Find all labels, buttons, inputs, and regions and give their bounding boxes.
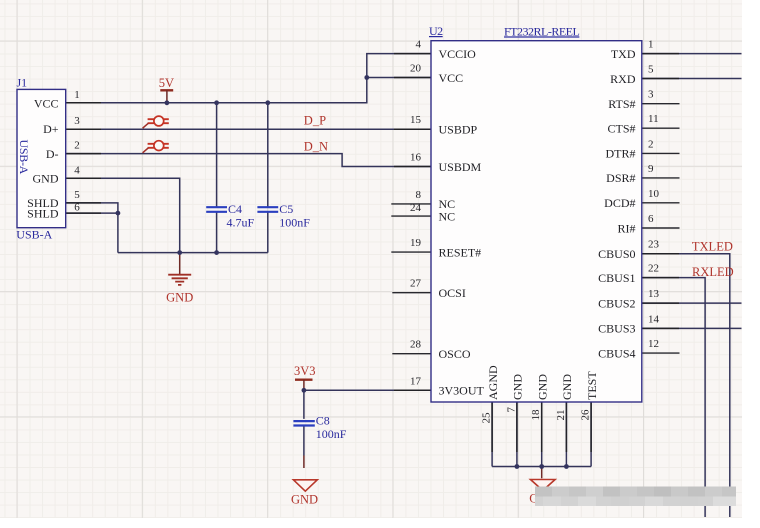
junction node rail GND bbox=[177, 250, 182, 255]
svg-text:28: 28 bbox=[410, 339, 422, 351]
ferrite bead / diff-pair directive on D+ bbox=[143, 116, 169, 128]
svg-text:AGND: AGND bbox=[486, 365, 500, 400]
svg-text:D_P: D_P bbox=[304, 114, 326, 128]
svg-text:TXD: TXD bbox=[611, 47, 636, 61]
pin stubs J1 black segments bbox=[66, 103, 101, 213]
svg-text:CBUS0: CBUS0 bbox=[598, 247, 635, 261]
svg-text:1: 1 bbox=[74, 89, 80, 101]
svg-text:24: 24 bbox=[410, 202, 422, 214]
junction node GND21 bbox=[564, 464, 569, 469]
svg-text:13: 13 bbox=[648, 288, 660, 300]
svg-text:25: 25 bbox=[481, 412, 493, 424]
svg-text:27: 27 bbox=[410, 278, 422, 290]
svg-text:22: 22 bbox=[648, 263, 659, 275]
svg-text:GND: GND bbox=[291, 492, 318, 506]
svg-text:OCSI: OCSI bbox=[439, 286, 466, 300]
ground triangle symbol under C8 bbox=[303, 456, 305, 469]
pin stub RI# bbox=[642, 227, 680, 229]
svg-text:D+: D+ bbox=[43, 122, 59, 136]
pin stub DTR# bbox=[642, 152, 680, 154]
wire C4 branch bbox=[216, 103, 218, 253]
svg-text:CBUS4: CBUS4 bbox=[598, 346, 635, 360]
wire CBUS1 RXLED bbox=[642, 278, 705, 517]
svg-text:16: 16 bbox=[410, 152, 422, 164]
svg-text:VCC: VCC bbox=[439, 71, 464, 85]
junction node C4 top bbox=[214, 100, 219, 105]
svg-text:VCC: VCC bbox=[34, 96, 59, 110]
ferrite bead / diff-pair directive on D- bbox=[143, 141, 169, 153]
pin stub RTS# bbox=[642, 103, 680, 105]
capacitor C4 plates bbox=[206, 207, 227, 212]
junction node SHLD bbox=[116, 211, 121, 216]
svg-text:NC: NC bbox=[439, 209, 456, 223]
power port 5V bbox=[160, 89, 173, 91]
svg-text:SHLD: SHLD bbox=[27, 207, 59, 221]
svg-text:DSR#: DSR# bbox=[606, 171, 635, 185]
svg-text:RESET#: RESET# bbox=[439, 245, 482, 259]
svg-text:J1: J1 bbox=[17, 76, 28, 90]
svg-text:CTS#: CTS# bbox=[607, 122, 635, 136]
svg-text:DCD#: DCD# bbox=[604, 196, 635, 210]
svg-text:9: 9 bbox=[648, 163, 654, 175]
svg-text:21: 21 bbox=[555, 410, 567, 421]
pin stub DSR# bbox=[642, 177, 680, 179]
wire SHLD pin5 down bbox=[66, 203, 118, 253]
pin stub CTS# bbox=[642, 127, 680, 129]
junction node GND18 bbox=[539, 464, 544, 469]
svg-text:FT232RL-REEL: FT232RL-REEL bbox=[504, 24, 579, 38]
svg-text:10: 10 bbox=[648, 188, 660, 200]
svg-text:19: 19 bbox=[410, 237, 422, 249]
svg-text:DTR#: DTR# bbox=[606, 147, 636, 161]
svg-text:TXLED: TXLED bbox=[692, 240, 733, 254]
wire USB GND pin4 down to ground rail bbox=[66, 178, 180, 252]
wire bottom TEST pin26 bbox=[590, 402, 592, 467]
svg-text:3V3OUT: 3V3OUT bbox=[439, 384, 485, 398]
svg-text:GND: GND bbox=[511, 374, 525, 400]
wire CBUS0 TXLED bbox=[642, 254, 730, 517]
svg-text:CBUS3: CBUS3 bbox=[598, 322, 635, 336]
svg-text:GND: GND bbox=[560, 374, 574, 400]
power port 3V3 bbox=[295, 379, 313, 381]
svg-text:CBUS1: CBUS1 bbox=[598, 271, 635, 285]
capacitor C8 plates bbox=[293, 421, 314, 425]
wire TXD out bbox=[642, 53, 742, 55]
wire RXD out bbox=[642, 78, 742, 80]
svg-text:11: 11 bbox=[648, 113, 659, 125]
svg-text:5V: 5V bbox=[159, 76, 174, 90]
svg-text:8: 8 bbox=[416, 189, 422, 201]
svg-text:15: 15 bbox=[410, 114, 422, 126]
svg-text:U2: U2 bbox=[429, 24, 443, 38]
svg-text:4: 4 bbox=[416, 39, 422, 51]
wire D_N net from USB D- to U2 USBDM bbox=[66, 154, 431, 167]
pin stub NC 24 bbox=[391, 215, 431, 217]
svg-text:6: 6 bbox=[74, 201, 80, 213]
svg-text:RXLED: RXLED bbox=[692, 265, 734, 279]
wire ground rail under USB bbox=[118, 252, 268, 254]
svg-text:6: 6 bbox=[648, 213, 654, 225]
svg-text:4.7uF: 4.7uF bbox=[227, 215, 255, 229]
white page margins right and bottom bbox=[742, 0, 760, 528]
svg-text:D_N: D_N bbox=[304, 139, 328, 153]
svg-text:5: 5 bbox=[648, 64, 654, 76]
capacitor C5 plates bbox=[257, 207, 278, 212]
junction node GND7 bbox=[515, 464, 520, 469]
svg-text:23: 23 bbox=[648, 239, 660, 251]
svg-text:OSCO: OSCO bbox=[439, 347, 471, 361]
svg-text:7: 7 bbox=[505, 407, 517, 413]
svg-text:GND: GND bbox=[535, 374, 549, 400]
wire SHLD pin6 join bbox=[66, 212, 118, 214]
pin stub DCD# bbox=[642, 202, 680, 204]
pin stubs U2 bottom black segments bbox=[492, 402, 591, 452]
svg-text:USBDM: USBDM bbox=[439, 160, 482, 174]
junction node 5V/VCC bbox=[165, 100, 170, 105]
pin stubs U2 left black segments bbox=[394, 54, 431, 391]
svg-text:100nF: 100nF bbox=[279, 215, 310, 229]
svg-text:1: 1 bbox=[648, 39, 654, 51]
svg-text:USB-A: USB-A bbox=[16, 228, 52, 242]
svg-text:GND: GND bbox=[33, 172, 59, 186]
wire bottom AGND pin25 bbox=[491, 402, 493, 467]
wire bottom ground rail bbox=[492, 466, 591, 468]
junction node 3V3 bbox=[302, 388, 307, 393]
junction node VCC/VCCIO bbox=[364, 75, 369, 80]
wire C5 branch bbox=[267, 103, 269, 253]
svg-text:GND: GND bbox=[166, 290, 193, 304]
wire VCC net from USB pin1 to U2 VCCIO/VCC bbox=[66, 54, 431, 103]
svg-text:3V3: 3V3 bbox=[294, 364, 316, 378]
svg-text:RI#: RI# bbox=[618, 221, 636, 235]
junction node rail C4 bbox=[214, 250, 219, 255]
pin stubs U2 right black segments bbox=[642, 54, 679, 329]
svg-text:14: 14 bbox=[648, 313, 660, 325]
ground earth symbol under USB bbox=[179, 253, 181, 274]
svg-text:17: 17 bbox=[410, 375, 422, 387]
svg-text:20: 20 bbox=[410, 63, 422, 75]
svg-text:VCCIO: VCCIO bbox=[439, 47, 477, 61]
svg-text:2: 2 bbox=[74, 140, 80, 152]
pin stub RESET# bbox=[391, 251, 431, 253]
pin stub CBUS4 bbox=[642, 352, 680, 354]
wire bottom GND pin7 bbox=[516, 402, 518, 467]
wire CBUS3 out bbox=[642, 327, 742, 329]
connector J1 USB-A body bbox=[17, 89, 66, 227]
svg-text:CBUS2: CBUS2 bbox=[598, 296, 635, 310]
svg-text:RXD: RXD bbox=[610, 72, 636, 86]
junction node C5 top bbox=[265, 100, 270, 105]
svg-text:5: 5 bbox=[74, 189, 80, 201]
svg-text:C4: C4 bbox=[228, 202, 242, 216]
svg-text:C8: C8 bbox=[316, 414, 330, 428]
op-amp U2 FT232RL body bbox=[431, 41, 642, 402]
svg-text:2: 2 bbox=[648, 138, 654, 150]
pin stub OCSI bbox=[392, 292, 431, 294]
svg-text:18: 18 bbox=[530, 409, 542, 421]
svg-text:USB-A: USB-A bbox=[17, 140, 31, 175]
svg-text:3: 3 bbox=[74, 115, 80, 127]
wire bottom GND pin21 bbox=[565, 402, 567, 467]
svg-text:D-: D- bbox=[46, 147, 59, 161]
wire bottom GND pin18 bbox=[541, 402, 543, 467]
pin stub NC 8 bbox=[391, 203, 431, 205]
svg-text:TEST: TEST bbox=[585, 371, 599, 400]
svg-text:C5: C5 bbox=[279, 202, 293, 216]
wire D_P net from USB D+ to U2 USBDP bbox=[66, 128, 431, 130]
svg-text:26: 26 bbox=[580, 409, 592, 421]
svg-text:USBDP: USBDP bbox=[439, 123, 478, 137]
svg-text:12: 12 bbox=[648, 338, 659, 350]
wire CBUS2 out bbox=[642, 302, 742, 304]
wire 3V3OUT net with C8 branch bbox=[304, 390, 431, 455]
censor mosaic block bbox=[535, 487, 736, 507]
svg-text:RTS#: RTS# bbox=[608, 97, 635, 111]
svg-text:3: 3 bbox=[648, 89, 654, 101]
ground triangle symbol under U2 bbox=[541, 467, 543, 479]
svg-text:100nF: 100nF bbox=[316, 427, 347, 441]
svg-text:4: 4 bbox=[74, 164, 80, 176]
pin stub OSCO bbox=[392, 353, 431, 355]
